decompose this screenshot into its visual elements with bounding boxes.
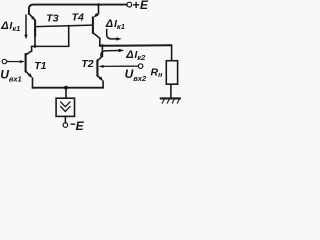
svg-text:T3: T3 — [46, 12, 58, 24]
svg-text:Uвх2: Uвх2 — [125, 67, 147, 83]
svg-text:T1: T1 — [34, 60, 46, 72]
svg-text:T4: T4 — [72, 11, 84, 23]
svg-text:ΔIк1: ΔIк1 — [105, 18, 125, 31]
svg-text:ΔIк2: ΔIк2 — [125, 49, 146, 62]
svg-text:Uвх1: Uвх1 — [0, 68, 22, 84]
svg-text:ΔIк1: ΔIк1 — [0, 20, 20, 33]
svg-text:E: E — [76, 119, 85, 132]
svg-text:T2: T2 — [81, 58, 93, 70]
svg-text:Rн: Rн — [151, 66, 164, 79]
svg-text:+E: +E — [132, 0, 149, 12]
